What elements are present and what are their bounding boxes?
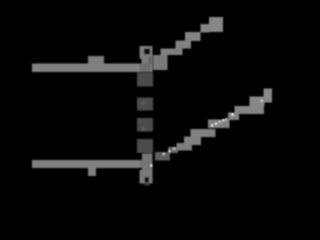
switch S1a fixed contact (open circle terminal)	[140, 46, 153, 59]
switch S1a lever end contact block	[209, 17, 223, 32]
junction dot (white) at S1b pivot	[151, 165, 153, 167]
net stub on wire W1 (blob above wire)	[88, 56, 104, 64]
switch S1b fixed contact (open circle terminal)	[140, 170, 153, 186]
mechanical gang link dash 2	[137, 98, 153, 111]
white speckles along S1b lever	[163, 100, 263, 155]
node: S1b pivot junction	[142, 154, 153, 172]
mechanical gang link (dashed line) dash 1	[137, 72, 153, 86]
switch S1a lever (staircase diagonal)	[153, 24, 209, 70]
link crossing smudge on wire W2	[140, 160, 150, 168]
wire W2 (bottom pole feed, horizontal)	[32, 160, 153, 168]
wire stub below W2	[88, 168, 96, 176]
wire W1 (top pole feed, horizontal)	[32, 64, 153, 73]
mechanical gang link dash 3	[137, 118, 153, 132]
node: S1a pivot	[142, 56, 153, 65]
link crossing smudge on wire W1	[140, 64, 151, 73]
switch S1b lever (staircase diagonal, dim near pivot)	[155, 89, 272, 161]
mechanical gang link dash 4	[137, 139, 153, 153]
